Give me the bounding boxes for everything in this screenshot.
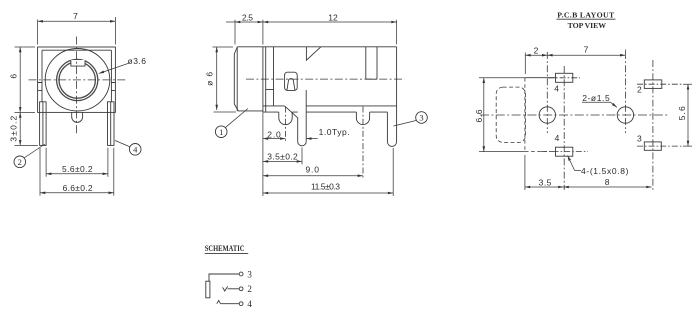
side view barrel bottom chamfer: [234, 104, 238, 111]
schematic title underline: [205, 253, 248, 255]
dimension 2.5 line: [235, 21, 263, 23]
side view body top edge: [237, 46, 396, 48]
front view jack opening ring outer circle: [57, 59, 98, 100]
leader line Ø3.6: [99, 64, 128, 74]
svg-text:3.5±0.2: 3.5±0.2: [267, 151, 298, 161]
schematic switch contact pin2: [223, 286, 228, 291]
svg-text:2: 2: [534, 45, 539, 55]
front view inner inset top line: [42, 49, 111, 51]
pcb hole 1: [539, 107, 555, 123]
front view vertical centerline: [76, 37, 78, 134]
front view barrel outer circle: [45, 48, 110, 110]
dimension 5.6 line: [46, 173, 108, 175]
side view switch contact window: [285, 72, 298, 90]
pcb holes horizontal centerline: [480, 114, 668, 116]
side view top slot left line: [365, 47, 367, 79]
pcb dimension 2 line: [525, 54, 547, 56]
schematic sleeve contact bar: [206, 281, 210, 298]
pcb dimension 8 line: [564, 186, 652, 188]
schematic pin 3 terminal circle: [239, 272, 243, 276]
side view top slot bottom: [366, 78, 377, 80]
front view center pin tip: [72, 112, 83, 122]
front view ring top notch border: [71, 60, 85, 66]
svg-text:3±0.2: 3±0.2: [8, 115, 18, 141]
side view front boss dome: [279, 112, 292, 125]
pcb pads 4 vertical centerline: [563, 66, 565, 190]
side view barrel tip inner line: [236, 47, 238, 111]
dimension Ø6 extension ticks: [213, 47, 237, 112]
svg-text:4-(1.5x0.8): 4-(1.5x0.8): [581, 166, 629, 176]
pcb pad 3 horizontal centerline: [637, 145, 683, 147]
side view switch contact tip: [287, 79, 295, 91]
svg-text:5.6: 5.6: [677, 106, 687, 120]
svg-text:2.0: 2.0: [267, 129, 281, 139]
pcb pad 2 horizontal centerline: [637, 83, 683, 85]
dimension 7 extension lines: [38, 17, 116, 45]
svg-text:P.C.B LAYOUT: P.C.B LAYOUT: [557, 11, 615, 20]
side view body right edge: [396, 47, 398, 106]
front view left leg terminal: [40, 102, 47, 146]
schematic wire pin2: [228, 288, 239, 290]
dimension 6 extension lines: [15, 47, 36, 112]
side view barrel tip face: [233, 54, 235, 104]
pcb dimension 2 and 7 extension lines: [525, 50, 625, 75]
pcb dimension 5.6 line: [687, 84, 689, 146]
front view jack opening ring inner circle: [59, 62, 95, 98]
side view rear boss dome: [356, 112, 369, 125]
pcb note 4-pads leader: [568, 156, 582, 171]
pcb component outline top edge: [525, 77, 556, 79]
pcb note 2-Ø1.5 underline and leader: [582, 102, 617, 107]
dimension 3±0.2 extension line: [15, 144, 39, 146]
side view flange back line: [265, 47, 267, 112]
svg-text:1.0Typ.: 1.0Typ.: [319, 127, 350, 137]
side view rear leg pin: [387, 106, 396, 147]
pcb component outline bottom edge hidden: [525, 151, 556, 153]
part label 3 balloon: [416, 112, 428, 124]
svg-text:SCHEMATIC: SCHEMATIC: [205, 243, 245, 253]
side view body bottom upper line: [263, 105, 397, 107]
dimension 6 line: [19, 47, 21, 112]
side view barrel bottom edge: [238, 110, 263, 112]
side view barrel top chamfer: [234, 47, 237, 54]
pcb pad 2 rectangle: [644, 80, 662, 89]
svg-text:6.6±0.2: 6.6±0.2: [63, 183, 93, 193]
side view internal frame vertical: [273, 47, 275, 106]
svg-text:4: 4: [554, 84, 559, 94]
pcb component outline left edge hidden: [524, 78, 526, 152]
dimension 2.5 extension lines: [226, 20, 235, 45]
svg-text:ø6: ø6: [204, 72, 214, 86]
svg-text:11.5±0.3: 11.5±0.3: [311, 181, 340, 191]
svg-text:3: 3: [247, 269, 252, 279]
svg-text:6.6: 6.6: [474, 109, 484, 122]
dimension 11.5±0.3 line: [263, 192, 393, 194]
dimension 3.5±0.2 line: [263, 160, 302, 162]
dimension 6.6 extension lines: [40, 148, 114, 196]
pcb hole 1 vertical centerline: [546, 52, 548, 133]
side view flange front line: [262, 47, 264, 112]
part label 1 balloon: [215, 126, 227, 138]
dimension Ø6 line: [216, 47, 218, 110]
schematic tip spring symbol: [217, 301, 221, 304]
dimension 3.5±0.2 extension tick: [301, 148, 303, 165]
pcb dimension 6.6 line: [483, 78, 485, 152]
svg-text:2: 2: [247, 284, 252, 294]
pcb hole 2: [617, 107, 633, 123]
pcb barrel projection dashed: [496, 87, 525, 142]
svg-text:2: 2: [18, 157, 22, 167]
front view ring top notch: [71, 60, 85, 66]
dimension 3±0.2 line: [19, 112, 21, 145]
svg-text:8: 8: [605, 177, 610, 187]
part label 2 leader: [24, 144, 45, 158]
front view right leg terminal: [108, 102, 115, 146]
svg-text:7: 7: [73, 11, 78, 21]
side view front boss centerline: [285, 107, 287, 142]
pcb pads right vertical centerline: [652, 60, 654, 190]
front view left leg inner line: [42, 102, 44, 146]
part label 2 balloon: [14, 156, 26, 168]
front view horizontal centerline: [29, 79, 128, 81]
part label 3 leader: [394, 121, 417, 127]
svg-text:TOP VIEW: TOP VIEW: [568, 21, 607, 30]
front view inner inset left line: [41, 50, 43, 102]
side view rear boss centerline: [362, 107, 364, 179]
svg-text:4: 4: [133, 144, 138, 154]
dimension 12 line: [263, 21, 397, 23]
svg-text:7: 7: [584, 44, 589, 54]
pcb dimension 6.6 extension lines: [479, 78, 525, 152]
schematic wire pin3: [209, 274, 239, 281]
svg-text:2.5: 2.5: [242, 13, 253, 23]
pcb pad 4 top rectangle: [556, 73, 573, 82]
front view inner inset right line: [110, 50, 112, 102]
pcb dimension 5.6 extension lines: [683, 84, 692, 146]
dimension 7 line: [38, 20, 116, 22]
pcb pad 3 rectangle: [644, 142, 661, 150]
part label 1 leader: [225, 109, 248, 128]
svg-text:3.5: 3.5: [539, 178, 552, 188]
svg-text:4: 4: [555, 133, 560, 143]
part label 4 leader: [115, 141, 130, 147]
front view right keying notch: [111, 83, 115, 91]
dimension 12 extension lines: [263, 20, 397, 45]
schematic pin 4 terminal circle: [239, 302, 243, 306]
schematic wire pin4: [221, 303, 239, 305]
side view horizontal centerline: [246, 78, 405, 80]
svg-text:4: 4: [247, 299, 252, 309]
svg-text:2-ø1.5: 2-ø1.5: [582, 93, 610, 103]
svg-text:5.6±0.2: 5.6±0.2: [62, 164, 93, 174]
svg-text:9.0: 9.0: [305, 165, 319, 175]
pcb pad 4 bottom rectangle: [556, 147, 573, 156]
svg-text:1: 1: [219, 127, 223, 137]
side view top slot right line: [376, 47, 378, 79]
pcb pad 4 bottom horizontal centerline: [541, 151, 588, 153]
side view internal step line: [266, 89, 274, 91]
pcb dimension 3.5 extension line: [524, 155, 526, 190]
side view terminal bend diagonal: [285, 106, 298, 118]
svg-text:ø3.6: ø3.6: [128, 56, 147, 66]
dimension 5.6 extension lines: [46, 148, 108, 177]
dimension 6.6 line: [40, 192, 114, 194]
svg-text:12: 12: [328, 13, 338, 23]
pcb pad 4 top horizontal centerline: [548, 77, 580, 79]
pcb title underline: [557, 18, 616, 20]
svg-text:3: 3: [637, 134, 642, 144]
dimension 2.0 line: [263, 138, 286, 140]
front view outer housing square: [38, 47, 116, 112]
front view right leg inner line: [110, 102, 112, 146]
dimension 11.5±0.3 extension lines: [263, 113, 393, 197]
pcb hole 2 vertical centerline: [624, 52, 626, 133]
pcb dimension 3.5 line: [525, 186, 564, 188]
front view left keying notch: [38, 83, 42, 91]
svg-text:2: 2: [637, 85, 642, 95]
svg-text:6: 6: [8, 74, 18, 79]
schematic pin 2 terminal circle: [239, 287, 243, 291]
side view body bottom base line: [263, 111, 388, 113]
dimension 1.0Typ arrow: [306, 138, 317, 140]
side view corner chamfer triangle: [306, 47, 321, 60]
side view middle leg pin: [298, 90, 307, 146]
pcb dimension 7 line: [547, 54, 625, 56]
dimension 9.0 line: [263, 175, 363, 177]
part label 4 balloon: [129, 144, 141, 156]
svg-text:3: 3: [419, 113, 423, 123]
